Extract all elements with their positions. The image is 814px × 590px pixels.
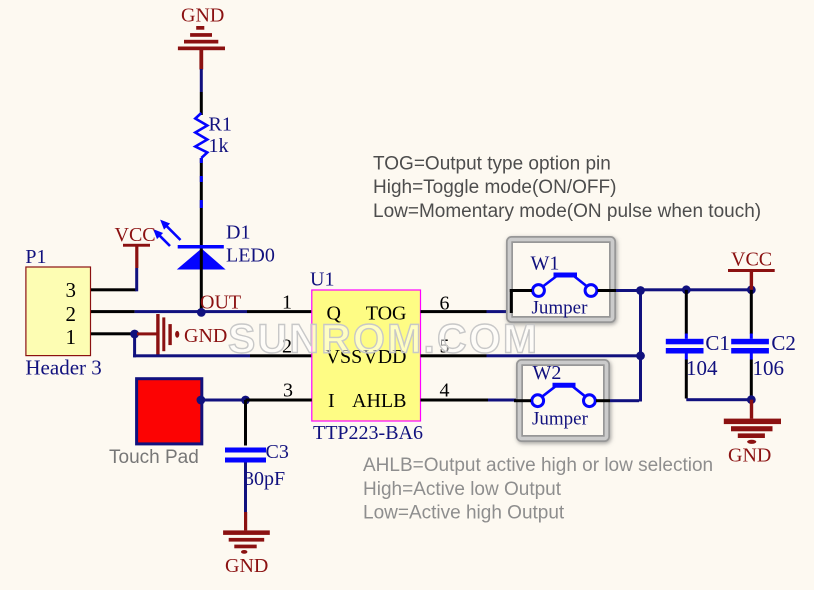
LED D1 LED0 xyxy=(154,221,275,270)
wire header pin1 xyxy=(91,332,132,335)
svg-text:High=Toggle mode(ON/OFF): High=Toggle mode(ON/OFF) xyxy=(373,177,616,198)
svg-text:VCC: VCC xyxy=(731,249,772,271)
node OUT junction xyxy=(197,292,241,317)
wire U1 pin5 (VDD) to vertical rail xyxy=(421,354,641,357)
node C1 top junction xyxy=(682,285,691,294)
wire bottom cap rail xyxy=(686,398,751,401)
LED light arrow 1 xyxy=(161,221,181,241)
jumper W1 box xyxy=(510,240,613,320)
power flag VCC right xyxy=(728,249,775,290)
svg-text:104: 104 xyxy=(686,356,718,380)
W1 left pin stub and drop to pin6 wire xyxy=(510,289,532,292)
svg-text:VCC: VCC xyxy=(115,224,156,246)
svg-text:TTP223-BA6: TTP223-BA6 xyxy=(313,422,423,444)
wire vertical rail right of jumpers xyxy=(639,289,642,402)
svg-text:Jumper: Jumper xyxy=(532,409,589,430)
svg-text:C1: C1 xyxy=(705,331,730,355)
ground GND left (rotated) xyxy=(137,314,227,355)
wire header pin3 to VCC xyxy=(91,268,138,291)
wire pin3 node to U1 pin I xyxy=(246,399,312,402)
svg-text:4: 4 xyxy=(440,379,450,401)
svg-text:AHLB=Output active high or low: AHLB=Output active high or low selection xyxy=(363,455,713,476)
svg-text:106: 106 xyxy=(753,356,785,380)
svg-text:TOG=Output type option pin: TOG=Output type option pin xyxy=(373,154,611,175)
svg-text:AHLB: AHLB xyxy=(352,390,406,412)
svg-text:Low=Momentary mode(ON pulse wh: Low=Momentary mode(ON pulse when touch) xyxy=(373,201,761,222)
jumper W2 box xyxy=(520,363,607,439)
W1 right pin stub xyxy=(598,289,617,292)
svg-text:GND: GND xyxy=(181,5,224,27)
jumper W1 symbol xyxy=(510,253,641,319)
annotation text AHLB modes xyxy=(363,455,713,524)
wire U1 pin6 to W1 xyxy=(421,310,513,313)
power flag VCC left xyxy=(115,224,156,268)
ground GND top power symbol xyxy=(178,5,225,70)
svg-text:SUNROM.COM: SUNROM.COM xyxy=(228,316,539,362)
svg-text:2: 2 xyxy=(66,302,77,326)
node VDD rail junction xyxy=(636,351,645,360)
wire R1 to D1 xyxy=(200,158,203,246)
wire U1 pin4 to W2 xyxy=(421,399,518,402)
svg-text:Touch Pad: Touch Pad xyxy=(109,447,199,468)
svg-text:C3: C3 xyxy=(266,441,289,463)
resistor R1 1k xyxy=(195,113,232,158)
svg-text:3: 3 xyxy=(283,379,293,401)
svg-text:U1: U1 xyxy=(310,269,334,291)
W2 left pin stub xyxy=(514,399,531,402)
svg-text:W2: W2 xyxy=(533,362,562,384)
svg-text:3: 3 xyxy=(66,278,77,302)
capacitor C2 106 xyxy=(731,290,796,399)
wire pad to pin3 node xyxy=(200,399,246,402)
W2 right pin stub xyxy=(596,399,610,402)
svg-text:1k: 1k xyxy=(209,135,229,157)
svg-text:GND: GND xyxy=(184,325,227,347)
jumper W2 symbol xyxy=(514,362,639,430)
wire GND to R1 xyxy=(200,69,203,115)
svg-text:Header 3: Header 3 xyxy=(25,356,101,380)
node pin3 junction xyxy=(241,396,250,405)
svg-text:30pF: 30pF xyxy=(244,468,285,490)
svg-text:I: I xyxy=(328,390,335,412)
touch pad xyxy=(109,379,202,468)
node C2 top junction xyxy=(747,285,756,294)
IC U1 TTP223-BA6 body xyxy=(282,269,450,445)
svg-text:GND: GND xyxy=(225,555,268,577)
ground GND right xyxy=(724,400,781,467)
svg-text:C2: C2 xyxy=(771,331,796,355)
wire D1 to OUT node xyxy=(200,249,203,313)
svg-text:LED0: LED0 xyxy=(226,245,275,267)
LED light arrow 2 xyxy=(154,230,170,246)
svg-text:P1: P1 xyxy=(25,246,46,268)
node W1 rail junction xyxy=(636,286,645,295)
svg-text:Jumper: Jumper xyxy=(532,298,589,319)
svg-text:D1: D1 xyxy=(226,222,250,244)
header P1 box xyxy=(25,246,101,380)
wire top VCC rail xyxy=(641,288,752,291)
node C2 bottom junction xyxy=(747,395,756,404)
svg-text:W1: W1 xyxy=(531,253,560,275)
node pin1/GND junction xyxy=(130,330,139,339)
ground GND bottom (below C3) xyxy=(223,512,270,577)
annotation text TOG modes xyxy=(373,154,761,223)
capacitor C3 30pF xyxy=(225,400,289,513)
svg-text:R1: R1 xyxy=(209,114,232,136)
wire OUT net (header pin2 to U1 pin Q) xyxy=(91,310,312,313)
svg-text:1: 1 xyxy=(282,292,292,314)
wire VSS net (pin1 node to U1 VSS) xyxy=(133,334,312,357)
svg-text:GND: GND xyxy=(728,445,771,467)
svg-text:1: 1 xyxy=(66,325,77,349)
svg-text:High=Active low Output: High=Active low Output xyxy=(363,479,562,500)
node at pad edge xyxy=(197,396,206,405)
capacitor C1 104 xyxy=(666,290,730,399)
svg-text:Low=Active high Output: Low=Active high Output xyxy=(363,503,565,524)
